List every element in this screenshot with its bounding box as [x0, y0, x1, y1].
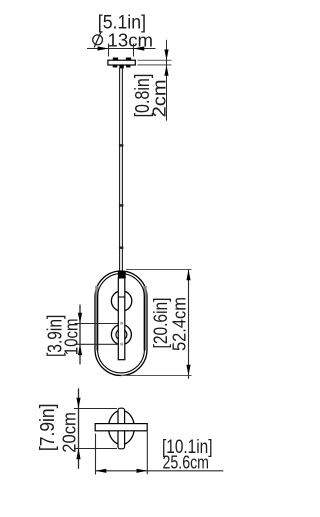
arrow up (tip at bottom ext) [164, 65, 168, 76]
plate [108, 60, 135, 65]
globe bottom inner circle [116, 329, 127, 340]
ext line top [138, 59, 172, 61]
gray band right [143, 286, 146, 351]
arrow up (tip at top) [186, 270, 190, 281]
ext line lower [75, 343, 119, 345]
screw right [126, 58, 131, 61]
arrow left (points right, tip at left tick) [98, 46, 109, 50]
tab left below [113, 65, 118, 67]
ext line bottom [74, 448, 117, 450]
rod left line [119, 68, 121, 273]
arrow up (tip lower ext) [78, 344, 82, 355]
svg-text:10cm: 10cm [62, 318, 82, 355]
dim line + shelf [96, 470, 224, 472]
ext line bottom [138, 64, 172, 66]
rod joint 1 [119, 144, 124, 146]
gray dot upper [120, 322, 123, 325]
arrow down (tip at bottom) [186, 365, 190, 376]
ext line bottom [121, 375, 192, 377]
svg-text:[7.9in]: [7.9in] [37, 404, 59, 452]
globe ellipse [109, 411, 135, 445]
tab right below [126, 65, 130, 67]
central bar [118, 278, 125, 360]
ext line top [74, 408, 117, 410]
rod joint 3 [119, 247, 124, 249]
bar (cross arm) [95, 424, 147, 431]
outer stadium [95, 271, 147, 376]
svg-text:20cm: 20cm [59, 412, 79, 453]
globe top circle [111, 291, 131, 311]
center stem below plate [119, 65, 123, 68]
svg-text:52.4cm: 52.4cm [169, 297, 189, 351]
screw left [113, 58, 118, 61]
dim line 13cm [87, 48, 156, 50]
svg-text:2cm: 2cm [149, 79, 169, 117]
ext line upper [75, 323, 119, 325]
tick right [146, 432, 148, 475]
arrow down (tip at top ext) [164, 50, 168, 61]
dim line vertical [78, 388, 80, 468]
top connector black [118, 271, 126, 279]
arrow left (tip at left tick) [96, 469, 107, 473]
arrow down (tip upper ext) [78, 313, 82, 324]
arrow down (tip at top ext) [76, 398, 80, 409]
dim line vertical [188, 270, 190, 379]
tick left [95, 434, 97, 475]
diameter symbol [93, 32, 103, 48]
arrow right (tip at right tick) [137, 469, 148, 473]
globe bottom outer circle [111, 325, 131, 345]
inner stadium [98, 274, 145, 373]
arrow right (points left, tip at right tick) [134, 46, 145, 50]
dim line vertical [79, 305, 81, 365]
tick right [133, 44, 135, 57]
svg-text:13cm: 13cm [108, 30, 154, 50]
arrow up (tip at bottom ext) [76, 449, 80, 460]
stem stadium [118, 408, 125, 449]
gray band left [95, 286, 98, 351]
tick left [108, 44, 110, 57]
rod right line [121, 68, 123, 273]
dim line vertical [166, 40, 168, 121]
bar joint line [118, 296, 125, 298]
rod joint 2 [119, 204, 124, 206]
ext line top [126, 269, 192, 271]
svg-text:25.6cm: 25.6cm [163, 452, 210, 472]
gray dot lower [120, 343, 123, 346]
